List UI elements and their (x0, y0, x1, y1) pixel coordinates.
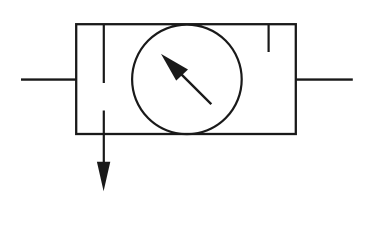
shut-off element upper segment (103, 24, 105, 83)
shut-off element lower segment (103, 111, 105, 168)
wire right outlet port 2 (295, 78, 353, 80)
gauge G1 needle head (161, 54, 188, 81)
gauge G1 dial circle (132, 25, 242, 135)
exhaust arrow port 3 (97, 162, 110, 192)
wire left inlet port 1 (21, 78, 77, 80)
pilot stub top right (268, 24, 270, 52)
gauge G1 needle shaft (178, 71, 211, 104)
valve body enclosure (76, 24, 296, 134)
